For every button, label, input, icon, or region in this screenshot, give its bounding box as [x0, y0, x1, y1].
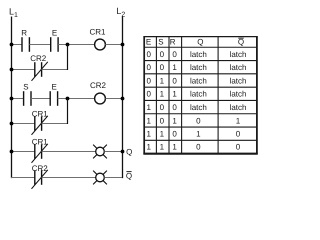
svg-text:latch: latch	[230, 76, 247, 85]
svg-text:1: 1	[146, 116, 151, 125]
svg-text:1: 1	[146, 143, 151, 152]
lamp Qbar	[93, 171, 107, 185]
wire rung4 seg b	[42, 123, 68, 125]
contact CR2 (NC, rung2)	[32, 62, 48, 81]
wire rung1 seg c	[58, 44, 95, 46]
svg-text:0: 0	[236, 130, 241, 139]
truth table	[143, 37, 257, 154]
svg-text:0: 0	[236, 143, 241, 152]
svg-text:1: 1	[160, 130, 165, 139]
wire rung1 seg a	[11, 44, 22, 46]
wire rung6 seg a	[11, 177, 35, 179]
table header row	[146, 38, 244, 47]
svg-text:1: 1	[160, 90, 165, 99]
left rail L1	[11, 17, 13, 179]
svg-text:1: 1	[146, 130, 151, 139]
svg-text:latch: latch	[190, 103, 207, 112]
svg-text:1: 1	[236, 116, 241, 125]
table grid	[143, 37, 257, 154]
wire rung3 seg b	[31, 98, 50, 100]
svg-text:R: R	[170, 38, 176, 47]
node rung3 right rail	[121, 97, 125, 101]
svg-text:Q: Q	[126, 147, 132, 156]
contact CR1 (NC, rung4)	[32, 116, 48, 135]
wire rung4 seg a	[11, 123, 35, 125]
wire rung4 riser	[67, 99, 69, 125]
svg-text:latch: latch	[190, 50, 207, 59]
wire rung3 seg c	[58, 98, 95, 100]
coil CR2	[95, 93, 106, 104]
svg-text:0: 0	[146, 90, 151, 99]
svg-text:0: 0	[160, 63, 165, 72]
wire rung2 seg b	[42, 69, 68, 71]
svg-text:latch: latch	[190, 76, 207, 85]
node rung1 right rail	[121, 43, 125, 47]
lamp Q	[93, 145, 107, 159]
table data rows	[146, 50, 246, 152]
svg-text:1: 1	[172, 116, 177, 125]
svg-text:0: 0	[196, 116, 201, 125]
svg-text:CR1: CR1	[89, 27, 106, 36]
node rung5 right rail	[121, 150, 125, 154]
contact E (NO, rung1)	[51, 37, 58, 52]
svg-text:latch: latch	[230, 63, 247, 72]
contact R (NO)	[22, 37, 29, 52]
wire rung3 seg d	[105, 98, 122, 100]
svg-text:1: 1	[172, 90, 177, 99]
label Qbar output	[126, 171, 132, 180]
svg-text:0: 0	[172, 130, 177, 139]
svg-text:1: 1	[146, 103, 151, 112]
svg-text:CR2: CR2	[32, 164, 49, 173]
svg-text:0: 0	[160, 50, 165, 59]
node rung4 left rail	[10, 122, 14, 126]
svg-text:0: 0	[172, 103, 177, 112]
svg-text:0: 0	[160, 116, 165, 125]
wire rung2 seg a	[11, 69, 35, 71]
svg-text:1: 1	[160, 76, 165, 85]
contact CR1 (NC, rung5)	[32, 144, 48, 163]
svg-text:0: 0	[146, 76, 151, 85]
svg-text:1: 1	[172, 63, 177, 72]
contact E (NO, rung3)	[50, 91, 57, 106]
wire rung3 seg a	[11, 98, 24, 100]
svg-text:latch: latch	[190, 90, 207, 99]
wire rung1 seg d	[105, 44, 122, 46]
svg-text:0: 0	[172, 76, 177, 85]
contact S (NO)	[24, 91, 31, 106]
svg-text:CR2: CR2	[90, 81, 107, 90]
svg-text:S: S	[158, 38, 163, 47]
svg-text:latch: latch	[230, 90, 247, 99]
svg-text:Q: Q	[197, 38, 203, 47]
node rung3 branch	[66, 97, 70, 101]
header Qbar overline	[238, 37, 243, 39]
wire rung1 seg b	[29, 44, 50, 46]
svg-text:Q: Q	[238, 38, 244, 47]
svg-text:E: E	[52, 82, 57, 91]
svg-text:1: 1	[196, 130, 201, 139]
svg-text:0: 0	[172, 50, 177, 59]
node rung1 left rail	[10, 43, 14, 47]
svg-text:R: R	[21, 29, 27, 38]
right rail L2	[122, 17, 124, 179]
wire rung5 seg b	[42, 151, 96, 153]
svg-text:0: 0	[160, 103, 165, 112]
svg-text:0: 0	[196, 143, 201, 152]
svg-text:1: 1	[172, 143, 177, 152]
svg-text:1: 1	[160, 143, 165, 152]
node rung5 left rail	[10, 150, 14, 154]
wire rung5 seg a	[11, 151, 35, 153]
svg-text:latch: latch	[230, 50, 247, 59]
svg-text:latch: latch	[190, 63, 207, 72]
svg-text:E: E	[146, 38, 151, 47]
wire rung5 seg c	[104, 151, 122, 153]
svg-text:CR1: CR1	[32, 137, 49, 146]
node rung2 left rail	[10, 68, 14, 72]
node rung1 branch	[66, 43, 70, 47]
svg-text:0: 0	[146, 50, 151, 59]
svg-text:CR1: CR1	[32, 109, 49, 118]
coil CR1	[95, 39, 106, 50]
wire rung2 riser	[67, 45, 69, 71]
wire rung6 seg b	[42, 177, 96, 179]
svg-text:0: 0	[146, 63, 151, 72]
wire rung6 seg c	[104, 177, 122, 179]
svg-text:S: S	[23, 82, 28, 91]
contact CR2 (NC, rung6)	[32, 170, 48, 189]
svg-text:latch: latch	[230, 103, 247, 112]
node rung3 left rail	[10, 97, 14, 101]
svg-text:CR2: CR2	[30, 54, 47, 63]
svg-text:Q: Q	[126, 171, 132, 180]
svg-text:E: E	[52, 29, 57, 38]
